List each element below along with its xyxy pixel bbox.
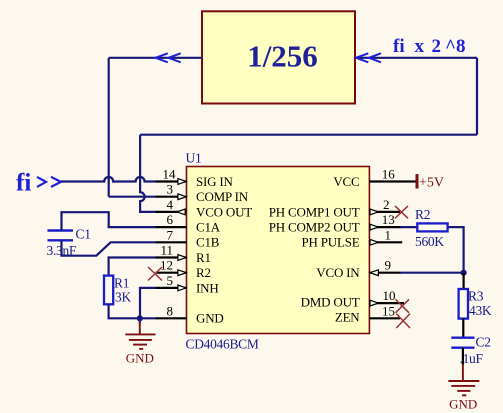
svg-text:INH: INH xyxy=(196,280,219,295)
wire: C2 to ground xyxy=(462,348,464,365)
svg-text:DMD OUT: DMD OUT xyxy=(301,295,360,310)
label GND1 xyxy=(126,351,154,366)
pin 11 input arrow xyxy=(178,255,186,261)
label GND2 xyxy=(449,397,477,412)
pin 2 output arrow xyxy=(370,209,378,215)
wire: C1 bottom to pin 7 C1B xyxy=(62,240,156,255)
svg-text:C1B: C1B xyxy=(196,235,220,250)
wire: pin 5 INH down to ground rail xyxy=(140,288,156,318)
left pin numbers xyxy=(160,167,176,319)
svg-text:11: 11 xyxy=(160,243,173,258)
value 43K xyxy=(469,303,492,318)
resistor R1 xyxy=(104,276,113,305)
pin 14 stub xyxy=(156,180,187,182)
designator U1 xyxy=(186,151,202,166)
svg-text:7: 7 xyxy=(167,227,174,242)
port fi xyxy=(16,170,31,197)
svg-text:VCO IN: VCO IN xyxy=(316,265,360,280)
svg-text:COMP IN: COMP IN xyxy=(196,189,249,204)
right pin stubs xyxy=(369,182,404,319)
svg-text:PH PULSE: PH PULSE xyxy=(302,235,360,250)
label fi x 2^8 xyxy=(393,36,466,57)
pin 4 stub xyxy=(156,211,187,213)
value 3.3nF xyxy=(47,243,77,258)
pin 8 stub xyxy=(156,317,187,319)
value 1uF xyxy=(460,351,484,366)
port fi arrows xyxy=(37,177,61,187)
power +5V bar xyxy=(416,174,419,189)
wire: divider input from right (fi x 2^8) xyxy=(355,57,477,59)
pin 9 stub xyxy=(369,272,400,274)
svg-text:C1A: C1A xyxy=(196,220,221,235)
resistor R2 xyxy=(417,223,447,231)
svg-text:x: x xyxy=(415,36,425,57)
resistor R3 xyxy=(459,289,468,319)
capacitor C2 xyxy=(451,338,474,348)
pin 9 input arrow xyxy=(370,270,378,276)
svg-text:SIG IN: SIG IN xyxy=(196,174,234,189)
svg-text:CD4046BCM: CD4046BCM xyxy=(186,337,259,352)
pin 10 stub xyxy=(369,302,404,304)
ground GND1 xyxy=(125,323,155,349)
pin 12 stub xyxy=(156,272,187,274)
part CD4046BCM xyxy=(186,337,259,352)
label R2 xyxy=(415,207,430,222)
pin 3 stub xyxy=(156,196,187,198)
no-connect X pin 10 xyxy=(396,299,410,313)
wire: pin 13 to R2 xyxy=(401,226,419,228)
divider block 1/256 xyxy=(202,11,355,103)
svg-text:R2: R2 xyxy=(196,265,211,280)
svg-text:VCC: VCC xyxy=(333,174,359,189)
svg-text:14: 14 xyxy=(163,167,177,182)
svg-text:R2: R2 xyxy=(415,207,430,222)
wire: R1 bottom to ground rail xyxy=(109,304,156,318)
svg-text:ZEN: ZEN xyxy=(335,310,360,325)
label R1 xyxy=(114,275,129,290)
wire: R3 to C2 xyxy=(462,319,464,338)
svg-text:+5V: +5V xyxy=(419,176,444,191)
left pin names xyxy=(196,174,252,326)
pin 16 stub xyxy=(369,180,400,182)
svg-text:13: 13 xyxy=(382,212,395,227)
svg-text:GND: GND xyxy=(449,397,477,412)
pin 5 input arrow xyxy=(178,285,186,291)
capacitor C1 xyxy=(48,231,74,241)
svg-text:R3: R3 xyxy=(468,289,484,304)
wire: R2 to vertical node xyxy=(449,227,464,273)
pin 13 output arrow xyxy=(370,224,378,230)
junction at VCO IN node xyxy=(461,270,467,276)
pin 3 input arrow xyxy=(178,194,186,200)
pin 15 stub xyxy=(369,317,400,319)
svg-text:5: 5 xyxy=(167,273,174,288)
svg-text:VCO OUT: VCO OUT xyxy=(196,204,252,219)
ground GND2 xyxy=(448,364,479,395)
svg-text:1: 1 xyxy=(385,227,392,242)
wire: divider output to left xyxy=(109,57,202,59)
right pin numbers xyxy=(382,167,396,319)
wire: fi input to SIG IN with hops xyxy=(61,177,156,182)
svg-text:2: 2 xyxy=(383,197,390,212)
no-connect X pin 12 xyxy=(148,267,162,281)
wire: vertical from divider output down to COMP IN row xyxy=(108,58,110,197)
svg-text:3: 3 xyxy=(167,182,174,197)
svg-text:C1: C1 xyxy=(76,226,91,241)
wire: C1 top to pin 6 C1A xyxy=(62,212,156,230)
svg-text:15: 15 xyxy=(382,303,395,318)
wire: to pin 3 COMP IN xyxy=(109,196,156,198)
arrows into divider right xyxy=(356,53,381,62)
no-connect X pin 2 xyxy=(395,206,408,218)
pin 4 output arrow xyxy=(177,209,185,215)
svg-text:PH COMP1 OUT: PH COMP1 OUT xyxy=(269,204,360,219)
junction at ground rail xyxy=(137,315,143,321)
svg-text:9: 9 xyxy=(385,258,392,273)
label +5V xyxy=(419,176,444,191)
svg-text:12: 12 xyxy=(160,258,173,273)
label R3 xyxy=(468,289,484,304)
wire: feedback right vertical xyxy=(476,58,478,135)
svg-text:PH COMP2 OUT: PH COMP2 OUT xyxy=(269,220,360,235)
svg-text:GND: GND xyxy=(196,311,224,326)
svg-text:fi: fi xyxy=(16,170,31,197)
svg-text:R1: R1 xyxy=(114,275,129,290)
wire: pin 9 to node xyxy=(401,272,464,274)
wire: feedback horizontal xyxy=(140,134,477,136)
svg-text:43K: 43K xyxy=(469,303,492,318)
no-connect X pin 15 xyxy=(396,314,410,328)
svg-text:GND: GND xyxy=(126,351,154,366)
pin 5 stub xyxy=(156,287,187,289)
pin 13 stub xyxy=(369,226,400,228)
svg-text:6: 6 xyxy=(167,212,174,227)
svg-text:fi: fi xyxy=(393,36,405,57)
IC U1 body xyxy=(187,167,370,334)
svg-text:2: 2 xyxy=(432,36,442,57)
pin 2 stub xyxy=(369,211,400,213)
left pin stubs xyxy=(156,182,187,319)
svg-text:560K: 560K xyxy=(415,234,444,249)
svg-text:10: 10 xyxy=(383,288,396,303)
wire: pin 11 to R1 top xyxy=(109,258,156,276)
svg-text:1/256: 1/256 xyxy=(247,39,318,74)
label C1 xyxy=(76,226,91,241)
svg-text:R1: R1 xyxy=(196,250,211,265)
wire: pin 16 to +5V xyxy=(401,180,417,182)
pin arrowheads xyxy=(177,179,379,306)
pin 14 input arrow xyxy=(178,179,186,185)
svg-text:C2: C2 xyxy=(476,334,491,349)
svg-text:^8: ^8 xyxy=(445,36,466,57)
svg-text:16: 16 xyxy=(382,167,396,182)
pin 7 stub xyxy=(156,241,187,243)
pin 10 output arrow xyxy=(370,300,378,306)
arrows into divider left xyxy=(156,53,181,62)
pin 11 stub xyxy=(156,256,187,258)
wire: node down to R3 xyxy=(463,273,465,289)
value 560K xyxy=(415,234,444,249)
svg-text:3K: 3K xyxy=(115,290,131,305)
pin 12 input arrow xyxy=(178,270,186,276)
label C2 xyxy=(476,334,491,349)
wire: junction stub down xyxy=(139,318,141,323)
wire: vertical to VCO OUT with hop over COMP IN wire xyxy=(140,135,155,212)
pin 1 stub xyxy=(369,241,402,243)
svg-text:U1: U1 xyxy=(186,151,202,166)
right pin names xyxy=(269,174,361,325)
svg-text:4: 4 xyxy=(167,197,174,212)
pin 6 stub xyxy=(156,226,187,228)
value 3K xyxy=(115,290,131,305)
pin 1 output arrow xyxy=(370,239,378,245)
svg-text:8: 8 xyxy=(167,303,174,318)
